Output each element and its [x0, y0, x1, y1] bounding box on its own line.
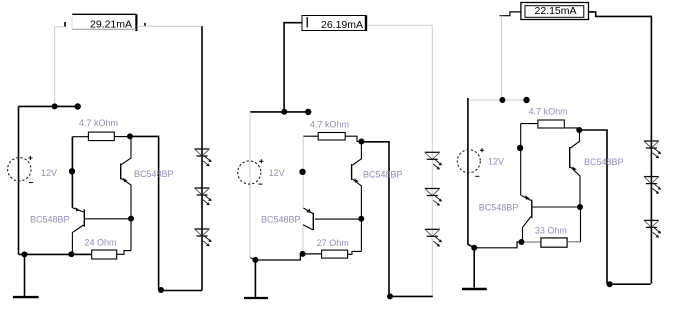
- svg-text:BC548BP: BC548BP: [479, 203, 519, 213]
- svg-text:4.7 kOhm: 4.7 kOhm: [79, 118, 118, 128]
- svg-text:12V: 12V: [269, 168, 285, 178]
- svg-text:BC548BP: BC548BP: [30, 215, 70, 225]
- svg-text:12V: 12V: [488, 157, 504, 167]
- svg-text:26.19mA: 26.19mA: [321, 19, 363, 31]
- svg-text:12V: 12V: [41, 168, 57, 178]
- svg-text:BC548BP: BC548BP: [261, 215, 301, 225]
- svg-text:BC548BP: BC548BP: [134, 169, 174, 179]
- svg-text:BC548BP: BC548BP: [584, 157, 624, 167]
- svg-text:27 Ohm: 27 Ohm: [317, 238, 349, 248]
- svg-text:29.21mA: 29.21mA: [90, 19, 132, 31]
- svg-text:4.7 kOhm: 4.7 kOhm: [310, 120, 349, 130]
- svg-text:24 Ohm: 24 Ohm: [85, 238, 117, 248]
- svg-text:22.15mA: 22.15mA: [535, 5, 577, 17]
- svg-text:4.7 kOhm: 4.7 kOhm: [529, 107, 568, 117]
- svg-text:33 Ohm: 33 Ohm: [535, 226, 567, 236]
- svg-text:BC548BP: BC548BP: [363, 170, 403, 180]
